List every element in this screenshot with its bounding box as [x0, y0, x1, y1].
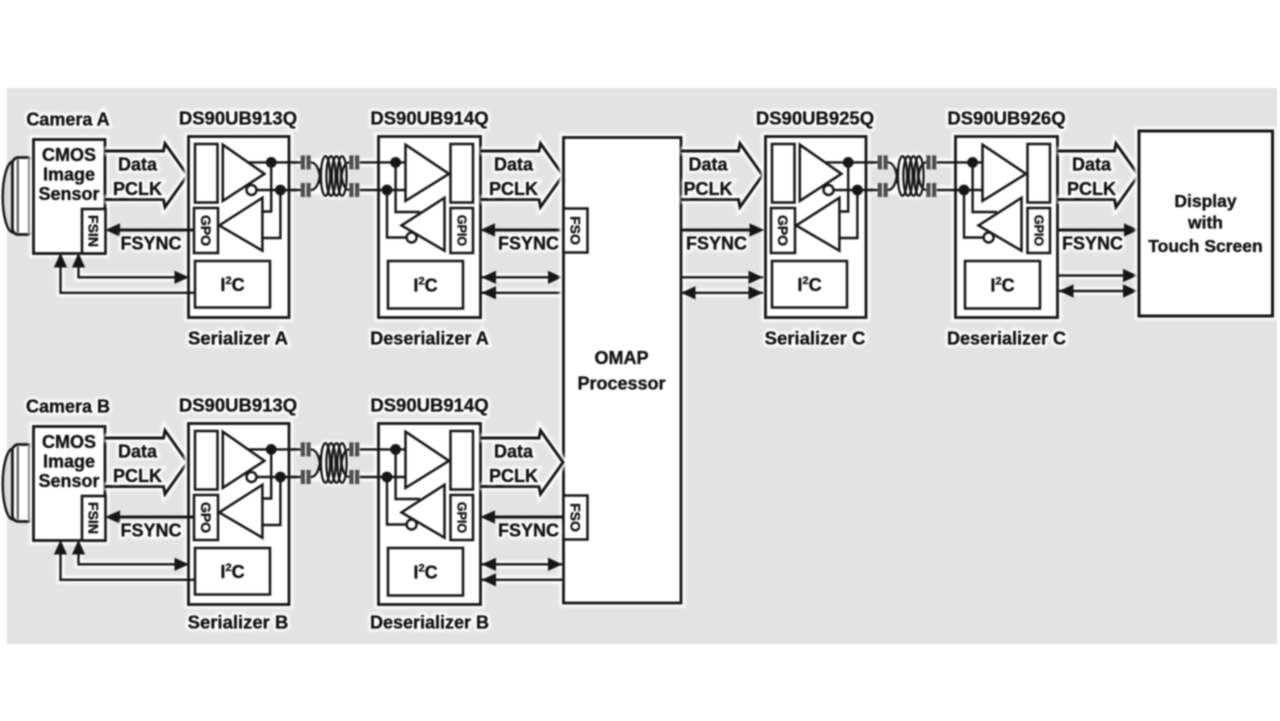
- I2C wire serializer A to camera A: [61, 257, 196, 293]
- serializer Serializer A parallel input register: [195, 144, 218, 203]
- wire Deserializer C pair+ input: [937, 161, 983, 163]
- deserializer Deserializer A inverting bubble: [407, 233, 417, 243]
- OMAP FSO pin box top: [564, 209, 588, 253]
- svg-text:I2C: I2C: [413, 276, 437, 296]
- svg-text:FSYNC: FSYNC: [120, 234, 181, 254]
- wire Serializer B driver noninverting output: [248, 448, 301, 450]
- svg-text:Data: Data: [494, 442, 534, 462]
- wire Serializer A driver inverting output: [257, 189, 301, 191]
- svg-text:DS90UB914Q: DS90UB914Q: [370, 395, 488, 416]
- svg-text:FSO: FSO: [568, 216, 584, 245]
- deserializer Deserializer C inverting bubble: [984, 233, 994, 243]
- wire Deserializer B pair+ to driver: [396, 449, 420, 499]
- display box: [1139, 131, 1273, 316]
- deserializer Deserializer C GPIO box: [1028, 208, 1051, 253]
- wire Serializer C pair- to receiver: [839, 190, 857, 238]
- deserializer Deserializer B receiver triangle: [406, 432, 450, 488]
- svg-text:PCLK: PCLK: [113, 466, 162, 486]
- deserializer Deserializer B back-channel driver triangle: [402, 485, 445, 538]
- junction dot Serializer C pair-: [852, 185, 863, 196]
- twisted pair A coupling caps serializer side: [292, 162, 301, 190]
- deserializer Deserializer C outer box: [956, 137, 1058, 318]
- svg-text:FSYNC: FSYNC: [498, 521, 559, 541]
- wire Serializer B pair+ to receiver: [262, 449, 271, 498]
- svg-text:FSIN: FSIN: [86, 502, 102, 534]
- camera A FSIN pin box: [82, 209, 106, 254]
- svg-text:DS90UB925Q: DS90UB925Q: [756, 108, 874, 129]
- svg-text:Data: Data: [118, 155, 158, 175]
- twisted pair B halo: [296, 449, 402, 477]
- svg-text:DS90UB913Q: DS90UB913Q: [179, 395, 297, 416]
- serializer Serializer A outer box: [189, 137, 290, 318]
- I2C bus lines OMAP / serializer C: [684, 277, 762, 293]
- svg-text:I2C: I2C: [220, 275, 244, 295]
- wire Serializer B pair- to receiver: [262, 477, 280, 525]
- deserializer Deserializer B inverting bubble: [407, 520, 417, 530]
- serializer Serializer C GPO box: [771, 208, 795, 253]
- svg-text:CMOS: CMOS: [42, 145, 96, 165]
- serializer Serializer A I2C box: [195, 261, 270, 308]
- FSYNC arrow OMAP FSO to deserializer B GPIO: [484, 513, 562, 521]
- serializer Serializer B inverting output bubble: [247, 472, 257, 482]
- serializer Serializer B I2C box: [195, 548, 270, 595]
- deserializer Deserializer A back-channel driver triangle: [402, 198, 445, 251]
- junction dot Serializer A pair+: [266, 157, 277, 168]
- svg-text:CMOS: CMOS: [42, 432, 96, 452]
- serializer Serializer A output driver triangle: [223, 145, 265, 201]
- twisted pair C coupling caps deserializer side: [926, 155, 930, 169]
- svg-text:FSYNC: FSYNC: [498, 234, 559, 254]
- OMAP FSO pin box bottom: [564, 496, 588, 540]
- serializer Serializer C parallel input register: [772, 144, 795, 203]
- svg-text:FSYNC: FSYNC: [120, 521, 181, 541]
- svg-text:PCLK: PCLK: [684, 179, 733, 199]
- camera B FSIN pin box: [82, 496, 106, 541]
- deserializer Deserializer A I2C box: [388, 261, 463, 309]
- FSYNC arrow OMAP FSO to serializer C GPO: [684, 226, 761, 234]
- svg-text:GPO: GPO: [198, 215, 214, 246]
- bus arrow Data/PCLK deserializer B to OMAP: [481, 431, 564, 495]
- wire Deserializer A pair- to driver bubble: [387, 190, 407, 238]
- twisted pair cable coil C: [888, 162, 898, 184]
- svg-text:I2C: I2C: [220, 562, 244, 582]
- svg-text:Sensor: Sensor: [38, 184, 99, 204]
- svg-text:GPIO: GPIO: [455, 502, 469, 534]
- twisted pair cable coil A: [311, 162, 321, 184]
- wire Deserializer C pair- to driver bubble: [964, 190, 984, 238]
- junction dot Deserializer A pair-: [382, 185, 393, 196]
- bus arrow Data/PCLK camera A to serializer A: [105, 144, 188, 208]
- twisted pair cable coil B: [311, 449, 321, 471]
- camera A CMOS image sensor box: [34, 140, 106, 254]
- svg-text:FSIN: FSIN: [86, 215, 102, 247]
- svg-text:GPIO: GPIO: [455, 215, 469, 247]
- svg-text:DS90UB913Q: DS90UB913Q: [179, 108, 297, 129]
- deserializer Deserializer A parallel output register: [451, 144, 474, 203]
- wire Serializer C pair+ to receiver: [839, 162, 848, 211]
- serializer Serializer A GPO box: [194, 208, 218, 253]
- FSYNC arrow deserializer C GPIO to display: [1060, 226, 1136, 234]
- wire Deserializer A pair+ to driver: [396, 162, 420, 212]
- camera B lens front element: [3, 449, 13, 520]
- I2C wire serializer B to camera B: [61, 544, 196, 580]
- svg-text:Data: Data: [1072, 155, 1112, 175]
- deserializer Deserializer B I2C box: [388, 548, 463, 596]
- serializer Serializer C back-channel receiver triangle: [796, 198, 839, 251]
- svg-text:Camera B: Camera B: [26, 397, 110, 417]
- svg-text:I2C: I2C: [797, 275, 821, 295]
- serializer Serializer B parallel input register: [195, 431, 218, 490]
- camera B lens barrel: [12, 445, 33, 522]
- junction dot Deserializer C pair+: [967, 157, 978, 168]
- twisted pair C coupling caps serializer side: [869, 162, 878, 190]
- wire Deserializer A pair- input: [360, 189, 406, 191]
- deserializer Deserializer A outer box: [379, 137, 481, 318]
- wire Deserializer A pair+ input: [360, 161, 406, 163]
- serializer Serializer C output driver triangle: [800, 145, 842, 201]
- wire Deserializer B pair- input: [360, 476, 406, 478]
- svg-text:Serializer B: Serializer B: [188, 612, 289, 633]
- wire Deserializer B pair- to driver bubble: [387, 477, 407, 525]
- deserializer Deserializer C I2C box: [965, 261, 1040, 309]
- svg-text:Serializer A: Serializer A: [188, 328, 288, 349]
- serializer Serializer B outer box: [189, 424, 290, 605]
- serializer Serializer C outer box: [766, 137, 867, 318]
- svg-text:Display: Display: [1174, 191, 1237, 211]
- serializer Serializer B output driver triangle: [223, 432, 265, 488]
- bus arrow Data/PCLK deserializer A to OMAP: [481, 144, 564, 208]
- wire Serializer A pair- to receiver: [262, 190, 280, 238]
- wire Serializer C driver inverting output: [834, 189, 878, 191]
- deserializer Deserializer C back-channel driver triangle: [979, 198, 1022, 251]
- bus arrow Data/PCLK OMAP to serializer C: [681, 144, 763, 208]
- wire Serializer C driver noninverting output: [825, 161, 878, 163]
- camera B CMOS image sensor box: [34, 427, 106, 541]
- serializer Serializer B GPO box: [194, 495, 218, 540]
- junction dot Serializer B pair+: [266, 444, 277, 455]
- wire Deserializer B pair+ input: [360, 448, 406, 450]
- svg-text:Data: Data: [118, 442, 158, 462]
- svg-text:Deserializer A: Deserializer A: [370, 329, 488, 349]
- junction dot Serializer A pair-: [275, 185, 286, 196]
- serializer Serializer C inverting output bubble: [824, 185, 834, 195]
- twisted pair A halo: [296, 162, 402, 190]
- svg-text:Touch Screen: Touch Screen: [1148, 236, 1262, 256]
- svg-text:Processor: Processor: [577, 374, 665, 394]
- bus arrow Data/PCLK camera B to serializer B: [105, 431, 188, 495]
- svg-text:Camera A: Camera A: [26, 110, 109, 130]
- svg-text:Image: Image: [43, 165, 95, 185]
- wire Deserializer C pair- input: [937, 189, 983, 191]
- camera A lens barrel: [12, 158, 33, 235]
- svg-text:Serializer C: Serializer C: [765, 328, 866, 349]
- deserializer Deserializer C receiver triangle: [983, 145, 1027, 201]
- deserializer Deserializer B outer box: [379, 424, 481, 605]
- junction dot Deserializer B pair-: [382, 472, 393, 483]
- svg-text:GPO: GPO: [198, 502, 214, 533]
- svg-text:Image: Image: [43, 452, 95, 472]
- bus arrow Data/PCLK deserializer C to display: [1058, 144, 1139, 208]
- I2C bus lines deserializer B / OMAP: [484, 564, 561, 580]
- OMAP processor box: [564, 138, 682, 604]
- serializer Serializer A inverting output bubble: [247, 185, 257, 195]
- svg-text:DS90UB926Q: DS90UB926Q: [947, 108, 1065, 129]
- svg-text:Sensor: Sensor: [38, 471, 99, 491]
- svg-text:PCLK: PCLK: [113, 179, 162, 199]
- svg-text:Deserializer C: Deserializer C: [947, 329, 1066, 349]
- svg-text:PCLK: PCLK: [489, 179, 538, 199]
- junction dot Deserializer B pair+: [390, 444, 401, 455]
- gray diagram panel: [7, 88, 1277, 644]
- svg-text:Data: Data: [494, 155, 534, 175]
- wire Serializer B driver inverting output: [257, 476, 301, 478]
- camera A lens front element: [3, 162, 13, 233]
- twisted pair B coupling caps serializer side: [292, 449, 301, 477]
- svg-text:DS90UB914Q: DS90UB914Q: [370, 108, 488, 129]
- serializer Serializer B back-channel receiver triangle: [219, 485, 262, 538]
- svg-text:GPO: GPO: [775, 215, 791, 246]
- svg-text:PCLK: PCLK: [1067, 179, 1116, 199]
- twisted pair C halo: [873, 162, 979, 190]
- FSYNC arrow serializer A GPO to camera A FSIN: [109, 226, 185, 234]
- I2C bus lines deserializer C / display: [1061, 276, 1136, 292]
- deserializer Deserializer A GPIO box: [451, 208, 474, 253]
- junction dot Serializer B pair-: [275, 472, 286, 483]
- FSYNC arrow OMAP FSO to deserializer A GPIO: [484, 226, 562, 234]
- I2C wire camera A to serializer A: [61, 256, 186, 293]
- deserializer Deserializer A receiver triangle: [406, 145, 450, 201]
- wire Serializer A driver noninverting output: [248, 161, 301, 163]
- deserializer Deserializer B parallel output register: [451, 431, 474, 490]
- deserializer Deserializer C parallel output register: [1028, 144, 1051, 203]
- deserializer Deserializer B GPIO box: [451, 495, 474, 540]
- svg-text:FSYNC: FSYNC: [1062, 234, 1123, 254]
- serializer Serializer A back-channel receiver triangle: [219, 198, 262, 251]
- svg-text:FSYNC: FSYNC: [686, 234, 747, 254]
- svg-text:Data: Data: [688, 155, 728, 175]
- twisted pair B coupling caps deserializer side: [349, 442, 353, 456]
- svg-text:Deserializer B: Deserializer B: [370, 613, 489, 633]
- svg-text:OMAP: OMAP: [595, 348, 649, 368]
- junction dot Serializer C pair+: [843, 157, 854, 168]
- svg-text:I2C: I2C: [990, 276, 1014, 296]
- I2C bus lines deserializer A / OMAP: [484, 277, 561, 293]
- junction dot Deserializer C pair-: [959, 185, 970, 196]
- svg-text:PCLK: PCLK: [489, 466, 538, 486]
- svg-text:FSO: FSO: [568, 503, 584, 532]
- svg-text:with: with: [1187, 213, 1223, 233]
- I2C wire camera B to serializer B: [61, 543, 186, 580]
- FSYNC arrow serializer B GPO to camera B FSIN: [109, 513, 185, 521]
- twisted pair A coupling caps deserializer side: [349, 155, 353, 169]
- wire Deserializer C pair+ to driver: [973, 162, 997, 212]
- svg-text:I2C: I2C: [413, 563, 437, 583]
- wire Serializer A pair+ to receiver: [262, 162, 271, 211]
- svg-text:GPIO: GPIO: [1032, 215, 1046, 247]
- junction dot Deserializer A pair+: [390, 157, 401, 168]
- serializer Serializer C I2C box: [772, 261, 847, 308]
